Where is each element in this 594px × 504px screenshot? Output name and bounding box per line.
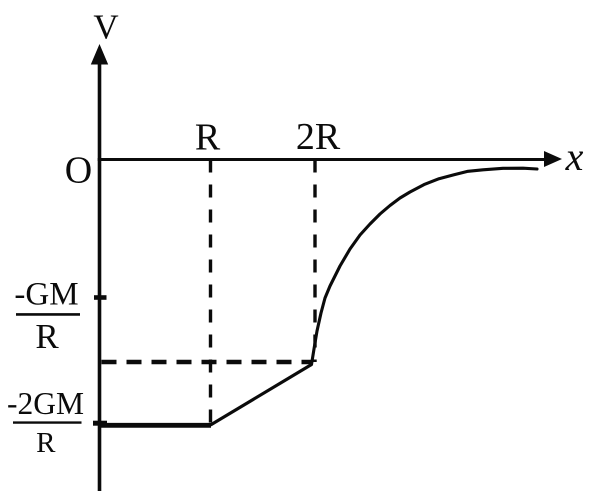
x axis arrowhead bbox=[544, 151, 562, 167]
x axis bbox=[98, 158, 546, 161]
V axis arrowhead bbox=[91, 44, 108, 65]
svg-text:-GM: -GM bbox=[14, 277, 78, 313]
svg-text:2R: 2R bbox=[296, 116, 341, 158]
vertical dashed line at R bbox=[209, 160, 212, 424]
svg-text:R: R bbox=[195, 117, 221, 159]
V axis bbox=[98, 60, 102, 491]
svg-text:V: V bbox=[93, 8, 118, 47]
fraction bar -2GM/R bbox=[13, 421, 82, 423]
horizontal dashed level line bbox=[102, 360, 314, 364]
svg-text:R: R bbox=[36, 427, 56, 459]
svg-text:O: O bbox=[65, 150, 92, 192]
tick -GM/R bbox=[94, 295, 107, 300]
vertical dashed line at 2R bbox=[313, 160, 316, 363]
svg-text:x: x bbox=[565, 134, 584, 179]
fraction bar -GM/R bbox=[16, 313, 80, 316]
linear curve segment R to 2R bbox=[211, 365, 312, 426]
svg-text:R: R bbox=[35, 317, 59, 356]
svg-text:-2GM: -2GM bbox=[7, 386, 84, 421]
tick -2GM/R bbox=[93, 421, 107, 426]
hyperbolic curve segment beyond 2R bbox=[312, 168, 538, 364]
flat curve segment at -2GM/R bbox=[98, 423, 211, 428]
